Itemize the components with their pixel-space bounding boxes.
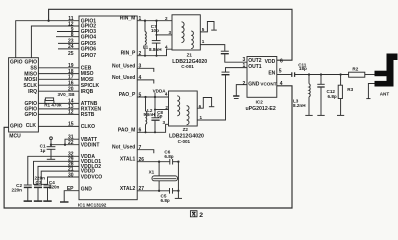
capacitor C1 lead bottom	[50, 149, 52, 159]
svg-text:3V0_SB: 3V0_SB	[58, 92, 76, 97]
wire C9 to IC2 OUT2 pin 3	[225, 54, 247, 63]
svg-text:GPIO: GPIO	[24, 59, 37, 65]
inductor L2 lead top	[145, 97, 147, 111]
svg-text:RIN_M: RIN_M	[120, 16, 136, 22]
ground IC2 GND bar1	[233, 95, 239, 97]
transformer Z1 primary coil	[182, 22, 185, 43]
svg-text:6: 6	[280, 59, 283, 65]
capacitor C12 lead bottom	[320, 87, 322, 115]
transformer Z2 primary coil	[177, 96, 180, 116]
wire CLKO pin 15	[38, 125, 79, 127]
svg-text:PAO_P: PAO_P	[119, 92, 136, 98]
wire RF line to R2	[295, 74, 349, 76]
capacitor C8 lead top	[154, 97, 156, 118]
capacitor C2 plate bottom	[24, 186, 32, 188]
svg-text:C-001: C-001	[181, 64, 194, 69]
antenna ANT symbol	[375, 54, 398, 87]
wire MISO pin 18	[38, 73, 79, 75]
svg-text:6: 6	[199, 104, 202, 109]
transformer Z1 secondary coil	[191, 31, 193, 49]
svg-text:R2: R2	[352, 66, 358, 71]
wire IRQB pin 20	[38, 90, 79, 92]
svg-text:Z1: Z1	[187, 53, 193, 58]
svg-text:220n: 220n	[49, 184, 60, 189]
wire MOSI pin 17	[38, 78, 79, 80]
IC1 box MC13192	[79, 16, 137, 200]
resistor R1 body	[45, 98, 53, 101]
wire Not_Used pin 4 stub	[137, 80, 154, 84]
capacitor C12 plate bottom	[317, 86, 324, 88]
svg-text:VCONT: VCONT	[260, 82, 276, 87]
wire antenna stub tick	[366, 98, 370, 100]
svg-text:IRQB: IRQB	[81, 89, 94, 95]
svg-text:4: 4	[280, 81, 283, 87]
svg-text:6.8p: 6.8p	[328, 94, 337, 99]
inductor L2 coil	[146, 111, 147, 124]
svg-text:VDDINT: VDDINT	[81, 142, 100, 148]
svg-text:CLK: CLK	[26, 123, 37, 129]
node junction C8 pin2	[154, 108, 156, 110]
transformer Z1 box	[172, 15, 200, 50]
capacitor C3 plate bottom	[34, 186, 42, 188]
wire crystal ground rail	[177, 162, 179, 199]
svg-text:2: 2	[243, 81, 246, 87]
wire Z1 pin 1 to C9	[200, 45, 225, 52]
ground C2 bar	[24, 200, 32, 202]
wire C5 to rail	[173, 190, 179, 192]
capacitor C11 plate left	[291, 72, 293, 77]
ground C1 bar	[47, 158, 55, 160]
wire IC2 GND pin 2	[236, 85, 247, 96]
wire VDDD pin 21	[41, 171, 79, 184]
ground C3 bar	[34, 200, 42, 202]
resistor R3 body	[338, 85, 342, 98]
inductor L1 lead bottom	[144, 45, 146, 56]
wire PAO_M pin 6 to Z2 pin 3	[137, 124, 168, 132]
svg-text:27: 27	[139, 186, 145, 192]
svg-text:PAO_M: PAO_M	[118, 127, 135, 133]
connector MCU box	[9, 58, 39, 132]
capacitor C9 plate top	[221, 50, 229, 52]
svg-text:3: 3	[168, 30, 171, 35]
wire RIN_M pin 1 to Z1 pin 2	[137, 20, 172, 22]
capacitor C7 plate top	[152, 40, 161, 42]
crystal X1 inner plate	[153, 178, 176, 180]
wire GND EP pin	[64, 191, 79, 202]
crystal X1 lead bottom	[158, 181, 160, 191]
inductor L3 lead bottom	[308, 97, 310, 116]
wire antenna open stub	[368, 84, 374, 99]
svg-text:Not_Used: Not_Used	[112, 145, 135, 151]
svg-text:2: 2	[139, 51, 142, 57]
wire Z1 pin 5 stub tick	[211, 29, 217, 31]
node junction L1 top	[144, 20, 146, 22]
svg-text:GPIO7: GPIO7	[81, 53, 97, 59]
node junction C12 tap	[320, 73, 322, 75]
node junction C1	[50, 144, 52, 146]
wire GPIO2 pin 12 to connector	[31, 26, 79, 58]
svg-text:5: 5	[279, 68, 282, 74]
svg-text:IC2: IC2	[256, 100, 264, 105]
svg-text:X1: X1	[149, 169, 155, 174]
wire XTAL2 pin 27	[137, 190, 169, 192]
svg-text:ANT: ANT	[380, 92, 390, 97]
svg-text:GPIO4: GPIO4	[81, 34, 97, 40]
IC2 box uPG2012-E2	[247, 57, 277, 98]
wire RXTXEN pin 13	[38, 108, 79, 110]
svg-text:IRQ: IRQ	[28, 89, 37, 95]
svg-text:5.6nH: 5.6nH	[144, 112, 155, 117]
wire Not_Used pin 3 stub	[137, 68, 154, 72]
inductor L2 lead bottom	[145, 124, 147, 132]
capacitor C6 plate left	[169, 159, 171, 165]
wire PAO_P pin 5 to Z2 pin 4	[137, 96, 168, 98]
svg-text:GPIO: GPIO	[24, 112, 37, 118]
capacitor C10 plate bottom	[222, 74, 230, 76]
wire VBATT pin 31	[65, 139, 79, 145]
capacitor C4 plate bottom	[44, 186, 52, 188]
capacitor C2 lead bottom	[27, 188, 29, 201]
node junction C8 bottom	[154, 131, 156, 133]
ground EP bar	[60, 201, 69, 203]
crystal X1 lead top	[158, 162, 160, 176]
svg-text:22: 22	[68, 140, 74, 146]
node junction VDDA tap	[154, 96, 156, 98]
svg-text:15: 15	[68, 122, 74, 128]
node junction crystal bottom	[158, 190, 160, 192]
wire XTAL1 pin 26	[137, 161, 170, 163]
wire Z1 pin 5 open stub	[200, 22, 214, 32]
capacitor C2 plate top	[24, 184, 32, 186]
capacitor C1 terminal circle	[50, 137, 53, 140]
node junction rail-C6	[177, 161, 179, 163]
wire VDDLO1 pin 29	[34, 161, 80, 184]
svg-text:3: 3	[162, 120, 165, 125]
node junction L3 tap	[308, 73, 310, 75]
wire C10 to Z2 pin 1	[197, 75, 225, 120]
capacitor C4 plate top	[44, 184, 52, 186]
svg-text:2: 2	[165, 105, 168, 110]
svg-text:XTAL1: XTAL1	[120, 157, 136, 163]
svg-text:7: 7	[139, 145, 142, 151]
svg-text:6: 6	[139, 128, 142, 134]
capacitor C12 lead top	[320, 75, 322, 85]
svg-text:1μ: 1μ	[40, 148, 46, 153]
node junction rail-GPIO1	[47, 20, 49, 22]
resistor R3 lead top	[340, 75, 342, 86]
wire R2 to antenna	[365, 74, 375, 76]
wire IC2 OUT1 pin 1 to C10	[226, 68, 248, 73]
wire GPIO4 pin 8	[56, 36, 79, 38]
svg-text:25: 25	[68, 51, 74, 57]
capacitor C9 plate bottom	[221, 53, 229, 55]
svg-text:Not_Used: Not_Used	[112, 75, 135, 81]
capacitor C7 lead bottom	[156, 43, 158, 56]
svg-text:5p: 5p	[157, 113, 163, 118]
svg-text:4: 4	[165, 45, 168, 50]
svg-text:GND: GND	[81, 187, 93, 193]
svg-text:EN: EN	[268, 71, 275, 77]
svg-text:2: 2	[165, 16, 168, 21]
capacitor C5 plate right	[172, 188, 174, 194]
wire VDDLO2 pin 28 to C3	[38, 166, 79, 185]
inductor L3 coil	[309, 84, 310, 97]
svg-text:1: 1	[202, 39, 205, 44]
svg-text:4: 4	[139, 75, 142, 81]
ground crystal rail bar	[175, 197, 182, 199]
transformer Z2 secondary coil	[187, 106, 189, 125]
node junction crystal top	[158, 161, 160, 163]
svg-text:C-001: C-001	[178, 139, 191, 144]
svg-text:8.8nH: 8.8nH	[149, 47, 162, 52]
wire CEB pin 19	[38, 67, 79, 69]
node junction C7 top	[155, 20, 157, 22]
svg-text:5: 5	[202, 27, 205, 32]
ground C12 bar	[317, 114, 324, 116]
wire VCONT pin 4 route to MCU GPIO	[4, 86, 292, 208]
wire Z2 pin 6 stub tick	[209, 106, 214, 108]
svg-text:1: 1	[243, 63, 246, 69]
svg-text:10p: 10p	[151, 28, 159, 33]
svg-text:uPG2012-E2: uPG2012-E2	[246, 106, 276, 112]
svg-text:VDDVCO: VDDVCO	[81, 175, 103, 181]
svg-text:2: 2	[199, 212, 203, 219]
ground L3 bar	[305, 114, 312, 116]
svg-text:220n: 220n	[12, 187, 23, 192]
node junction VBATT-VDDINT	[64, 144, 66, 146]
capacitor C6 plate right	[172, 159, 174, 165]
wire connector to ATTNB	[38, 102, 79, 104]
wire Z2 pin 6 open stub	[197, 98, 211, 109]
wire EN pin 5 to C11	[277, 74, 292, 76]
capacitor C5 plate left	[169, 188, 171, 194]
node junction L1 bottom	[144, 55, 146, 57]
capacitor C1 plate bottom	[47, 148, 56, 150]
node junction L2 top	[144, 96, 146, 98]
resistor R3 lead bottom	[340, 99, 342, 116]
svg-text:R3: R3	[347, 87, 353, 92]
wire Z1 pin 3 stub	[157, 34, 173, 36]
svg-text:30: 30	[68, 172, 74, 178]
svg-text:8: 8	[71, 32, 74, 38]
ground C4 bar	[43, 200, 51, 202]
capacitor C8 plate top	[151, 117, 159, 119]
svg-text:CLKO: CLKO	[81, 124, 95, 130]
svg-text:6.8p: 6.8p	[164, 154, 173, 159]
capacitor C8 plate bottom	[151, 119, 159, 121]
svg-text:18p: 18p	[299, 66, 307, 71]
wire GPIO1 pin 11 to connector	[16, 21, 79, 58]
wire Not_Used pin 7 stub	[137, 150, 154, 154]
ground IC2 GND bar2	[234, 98, 239, 100]
node VDDA stub	[154, 93, 156, 97]
svg-text:24: 24	[68, 44, 74, 50]
capacitor C1 plate top	[47, 146, 56, 148]
svg-text:RSTB: RSTB	[81, 112, 95, 118]
capacitor C12 plate top	[317, 83, 324, 85]
svg-text:GPIO: GPIO	[10, 124, 23, 130]
capacitor C8 lead bottom	[154, 120, 156, 132]
svg-text:1: 1	[139, 16, 142, 22]
inductor L1 coil	[145, 32, 146, 45]
svg-text:3: 3	[139, 64, 142, 70]
wire Z2 pin 2 stub	[155, 109, 169, 111]
wire GPIO3 pin 9	[57, 31, 79, 33]
resistor R2 body	[349, 72, 365, 77]
node junction L2 bottom	[144, 131, 146, 133]
wire VDD rail from GPIO1 node to IC2 VDD pin 6	[49, 9, 292, 60]
resistor R1 lead left	[44, 99, 46, 103]
wire GPIO6 pin 24	[58, 48, 79, 50]
svg-text:C3: C3	[36, 180, 42, 185]
svg-text:OUT1: OUT1	[248, 64, 262, 70]
inductor L3 lead top	[308, 75, 310, 84]
inductor L1 lead top	[144, 21, 146, 32]
crystal X1 body	[152, 176, 178, 181]
wire VDDA pin 32 to C2	[28, 156, 79, 185]
capacitor C11 plate right	[294, 72, 296, 77]
svg-text:EP: EP	[67, 186, 74, 192]
resistor R1 lead right	[53, 101, 55, 104]
capacitor C7 plate bottom	[152, 42, 161, 44]
node junction C7 pin3	[155, 34, 157, 36]
svg-text:6.8p: 6.8p	[161, 198, 170, 203]
svg-text:Z2: Z2	[183, 127, 189, 132]
svg-text:1: 1	[200, 115, 203, 120]
svg-text:4: 4	[165, 92, 168, 97]
svg-text:5: 5	[139, 92, 142, 98]
svg-text:R1 470k: R1 470k	[44, 103, 62, 108]
wire RSTB pin 12	[38, 113, 79, 115]
svg-text:GND: GND	[248, 82, 260, 88]
wire GPIO5 pin 23	[58, 42, 79, 44]
svg-text:RIN_P: RIN_P	[121, 51, 136, 57]
svg-text:MCU: MCU	[9, 133, 21, 139]
wire C6 to rail	[173, 161, 179, 163]
label figure caption 图2	[190, 211, 197, 217]
wire SPICLK pin 16	[38, 84, 79, 86]
capacitor C3 lead bottom	[37, 188, 39, 201]
svg-text:IC1 MC13192: IC1 MC13192	[78, 203, 107, 208]
svg-text:8.2nH: 8.2nH	[293, 103, 306, 108]
capacitor C3 plate top	[34, 184, 42, 186]
svg-text:XTAL2: XTAL2	[120, 186, 136, 192]
capacitor C1 lead top	[50, 140, 52, 147]
capacitor C10 plate top	[222, 71, 230, 73]
wire RIN_P pin 2 to Z1 pin 4	[137, 49, 172, 56]
node junction R3 tap	[339, 73, 341, 75]
svg-text:26: 26	[139, 157, 145, 163]
svg-text:OUT2: OUT2	[248, 58, 262, 64]
wire VDDINT pin 22	[51, 144, 79, 146]
svg-text:L1: L1	[143, 44, 149, 49]
svg-text:GPIO: GPIO	[10, 59, 23, 65]
svg-text:12: 12	[68, 110, 74, 116]
svg-text:Not_Used: Not_Used	[112, 63, 135, 69]
wire VDDVCO pin 30 to C4	[48, 177, 80, 185]
svg-text:GPIO6: GPIO6	[81, 47, 97, 53]
capacitor C4 lead bottom	[47, 188, 49, 201]
svg-text:VDD: VDD	[265, 59, 276, 65]
transformer Z2 box	[169, 91, 198, 126]
node junction C7 bottom	[155, 55, 157, 57]
node junction rail-C5	[177, 190, 179, 192]
capacitor C7 lead top	[156, 21, 158, 41]
ground R3 bar	[337, 114, 344, 116]
